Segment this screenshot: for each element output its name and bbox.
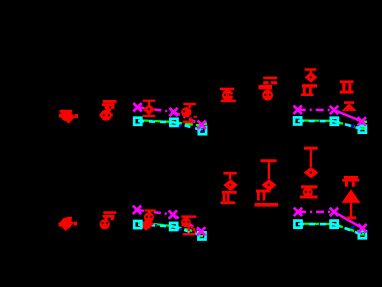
red circle with error bar A4, top-left panel pt4: [181, 103, 197, 123]
cyan dashed line S1-S2, top-left: [138, 121, 174, 122]
magenta dash-dot line X1-X2, bottom-left: [137, 210, 173, 215]
cyan open square S3, top-right: [359, 126, 366, 133]
red marker cluster C2 (error caps + open circle), bottom-left pt2: [100, 211, 117, 229]
magenta X marker X3, bottom-left: [197, 227, 205, 235]
magenta X marker X1, top-left: [133, 103, 141, 111]
red open-square marker B4, top-right pt4: [340, 80, 354, 93]
cyan dashed line S2-S3, top-right: [334, 121, 362, 129]
red diamond with error bar B3 upper, top-right pt3: [305, 68, 318, 82]
magenta dash-dot line X1-X2, top-right: [298, 109, 334, 112]
cyan open square S3, bottom-left: [198, 232, 205, 239]
red open-square marker B3 lower, top-right pt3: [301, 84, 317, 96]
red diamond + open square with error bar D1, bottom-right pt1: [220, 172, 238, 204]
cyan dashed line S1-S2, bottom-right: [298, 223, 334, 226]
magenta dash-dot line X2-X3, top-left: [174, 112, 202, 125]
red marker cluster B2 (stacked caps + open circle), top-right pt2: [259, 77, 278, 101]
magenta X marker X2, bottom-left: [169, 210, 177, 218]
cyan open square S2, top-left: [170, 119, 177, 126]
magenta dash-dot line X1-X2, top-left: [138, 107, 174, 112]
red diamond with error bar A3, top-left panel pt3: [143, 100, 156, 118]
blue dashed line, bottom-left: [154, 225, 196, 233]
magenta X marker X2, top-right: [330, 106, 338, 114]
red open square + triangle with error bar D4, bottom-right pt4: [342, 176, 361, 219]
green line segments, bottom-left: [138, 222, 203, 237]
blue dashed line, top-left: [152, 121, 203, 132]
magenta line X2-X3, top-right: [334, 110, 362, 121]
green line segments, top-right: [299, 121, 367, 131]
red marker cluster C1 (overlapping circle+triangle), bottom-left pt1: [59, 217, 78, 231]
cyan open square S2, top-right: [331, 118, 338, 125]
magenta X marker X2, top-left: [169, 108, 177, 116]
magenta X marker X1, bottom-left: [133, 206, 141, 214]
cyan dashed line S1-S2, bottom-left: [138, 225, 174, 227]
magenta dash-dot line X2-X3, bottom-left: [173, 215, 201, 232]
magenta X marker X3, top-left: [198, 121, 206, 129]
red circle with error bars C4, bottom-left pt4: [181, 215, 197, 235]
cyan open square S2, bottom-left: [170, 223, 177, 230]
magenta dash-dot line X1-X2, bottom-right: [298, 211, 334, 214]
blue dashed line, bottom-right: [310, 224, 362, 234]
cyan dashed line S2-S3, top-left: [174, 122, 204, 130]
magenta X marker X2, bottom-right: [330, 208, 338, 216]
magenta X marker X1, top-right: [294, 106, 302, 114]
cyan open square S1, top-right: [294, 117, 301, 124]
red diamond + open circle with tall error bar D3, bottom-right pt3: [300, 147, 319, 199]
cyan open square S1, bottom-left: [134, 221, 141, 228]
red circle+diamond+triangle with error bar C3, bottom-left pt3: [140, 209, 156, 230]
cyan dashed line S2-S3, bottom-left: [174, 227, 202, 237]
green line segments, top-left: [138, 120, 207, 131]
magenta X marker X3, top-right: [358, 117, 366, 125]
red marker cluster B1 (caps + open circle), top-right pt1: [220, 88, 236, 103]
cyan dashed line S1-S2, top-right: [298, 120, 335, 123]
magenta X marker X1, bottom-right: [294, 208, 302, 216]
red marker cluster A1 (overlapping circle+triangle), top-left panel pt1: [59, 110, 78, 124]
red diamond + open square with tall error bar D2, bottom-right pt2: [255, 159, 279, 206]
cyan open square S1, bottom-right: [294, 221, 301, 228]
red triangle with cap B5, top-right pt4: [342, 101, 357, 111]
red marker cluster A2 (error caps + open circle), top-left panel pt2: [99, 100, 116, 121]
green line segments, bottom-right: [299, 224, 364, 236]
cyan dashed line S2-S3, bottom-right: [334, 224, 362, 235]
cyan open square S1, top-left: [134, 118, 141, 125]
magenta X marker X3, bottom-right: [358, 224, 366, 232]
cyan open square S3, bottom-right: [359, 231, 366, 238]
magenta line X2-X3, bottom-right: [334, 212, 362, 228]
cyan open square S2, bottom-right: [331, 221, 338, 228]
cyan open square S3, top-left: [199, 127, 206, 134]
blue dashed line, top-right: [310, 121, 363, 132]
